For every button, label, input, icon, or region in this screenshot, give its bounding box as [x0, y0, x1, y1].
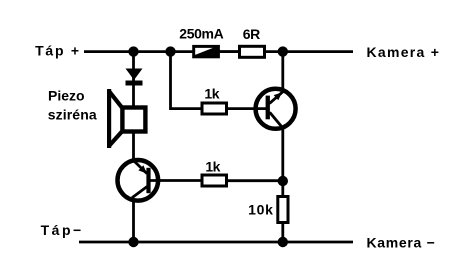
transistor Q2 (right) — [256, 89, 296, 129]
wire diode branch vertical (top rail to speaker) — [132, 52, 135, 106]
junction node bottom rail / Q1 — [128, 237, 138, 247]
svg-text:10k: 10k — [248, 202, 273, 218]
wire 1k branch: top rail down and to resistor — [171, 52, 202, 109]
wire Q2 collector to top rail — [281, 52, 284, 92]
svg-text:Táp +: Táp + — [35, 42, 79, 58]
svg-text:1k: 1k — [205, 158, 220, 174]
wire 10k to bottom rail — [281, 224, 284, 242]
resistor 10k — [278, 197, 288, 223]
svg-text:1k: 1k — [204, 85, 219, 101]
wire transistor Q1 emitter to bottom rail — [132, 200, 135, 242]
wire speaker to transistor Q1 — [132, 134, 135, 162]
junction node top rail / Q2 collector — [278, 46, 288, 56]
resistor 1k upper — [202, 103, 227, 114]
transistor Q1 (left, PNP) — [118, 160, 159, 201]
svg-text:sziréna: sziréna — [48, 107, 97, 123]
junction node top rail / 1k branch — [165, 46, 175, 56]
svg-text:250mA: 250mA — [179, 26, 223, 42]
wire resistor 1k upper to base of Q2 — [228, 107, 266, 110]
fuse 250mA — [192, 45, 220, 58]
junction node bottom rail / 10k — [278, 237, 288, 247]
svg-text:Piezo: Piezo — [48, 87, 85, 103]
wire fuse to resistor 6R — [220, 50, 239, 53]
diode D1 — [126, 69, 143, 86]
resistor 1k middle — [202, 175, 227, 186]
junction node top rail / diode — [128, 46, 138, 56]
wire Q2 emitter down to 10k — [281, 127, 284, 196]
svg-text:Kamera +: Kamera + — [367, 44, 439, 60]
svg-text:6R: 6R — [243, 26, 260, 42]
resistor 6R — [240, 46, 265, 57]
wire Q1 base to resistor 1k middle — [148, 179, 201, 182]
svg-text:Kamera −: Kamera − — [367, 235, 435, 251]
wire top rail Tap+ to Kamera+ — [84, 50, 353, 53]
piezo siren speaker — [109, 89, 146, 148]
wire bottom rail Tap- to Kamera- — [79, 241, 353, 244]
junction node Q2 emitter / 1k middle / 10k — [278, 176, 288, 186]
wire resistor 1k middle to node at Q2 emitter — [228, 179, 283, 182]
